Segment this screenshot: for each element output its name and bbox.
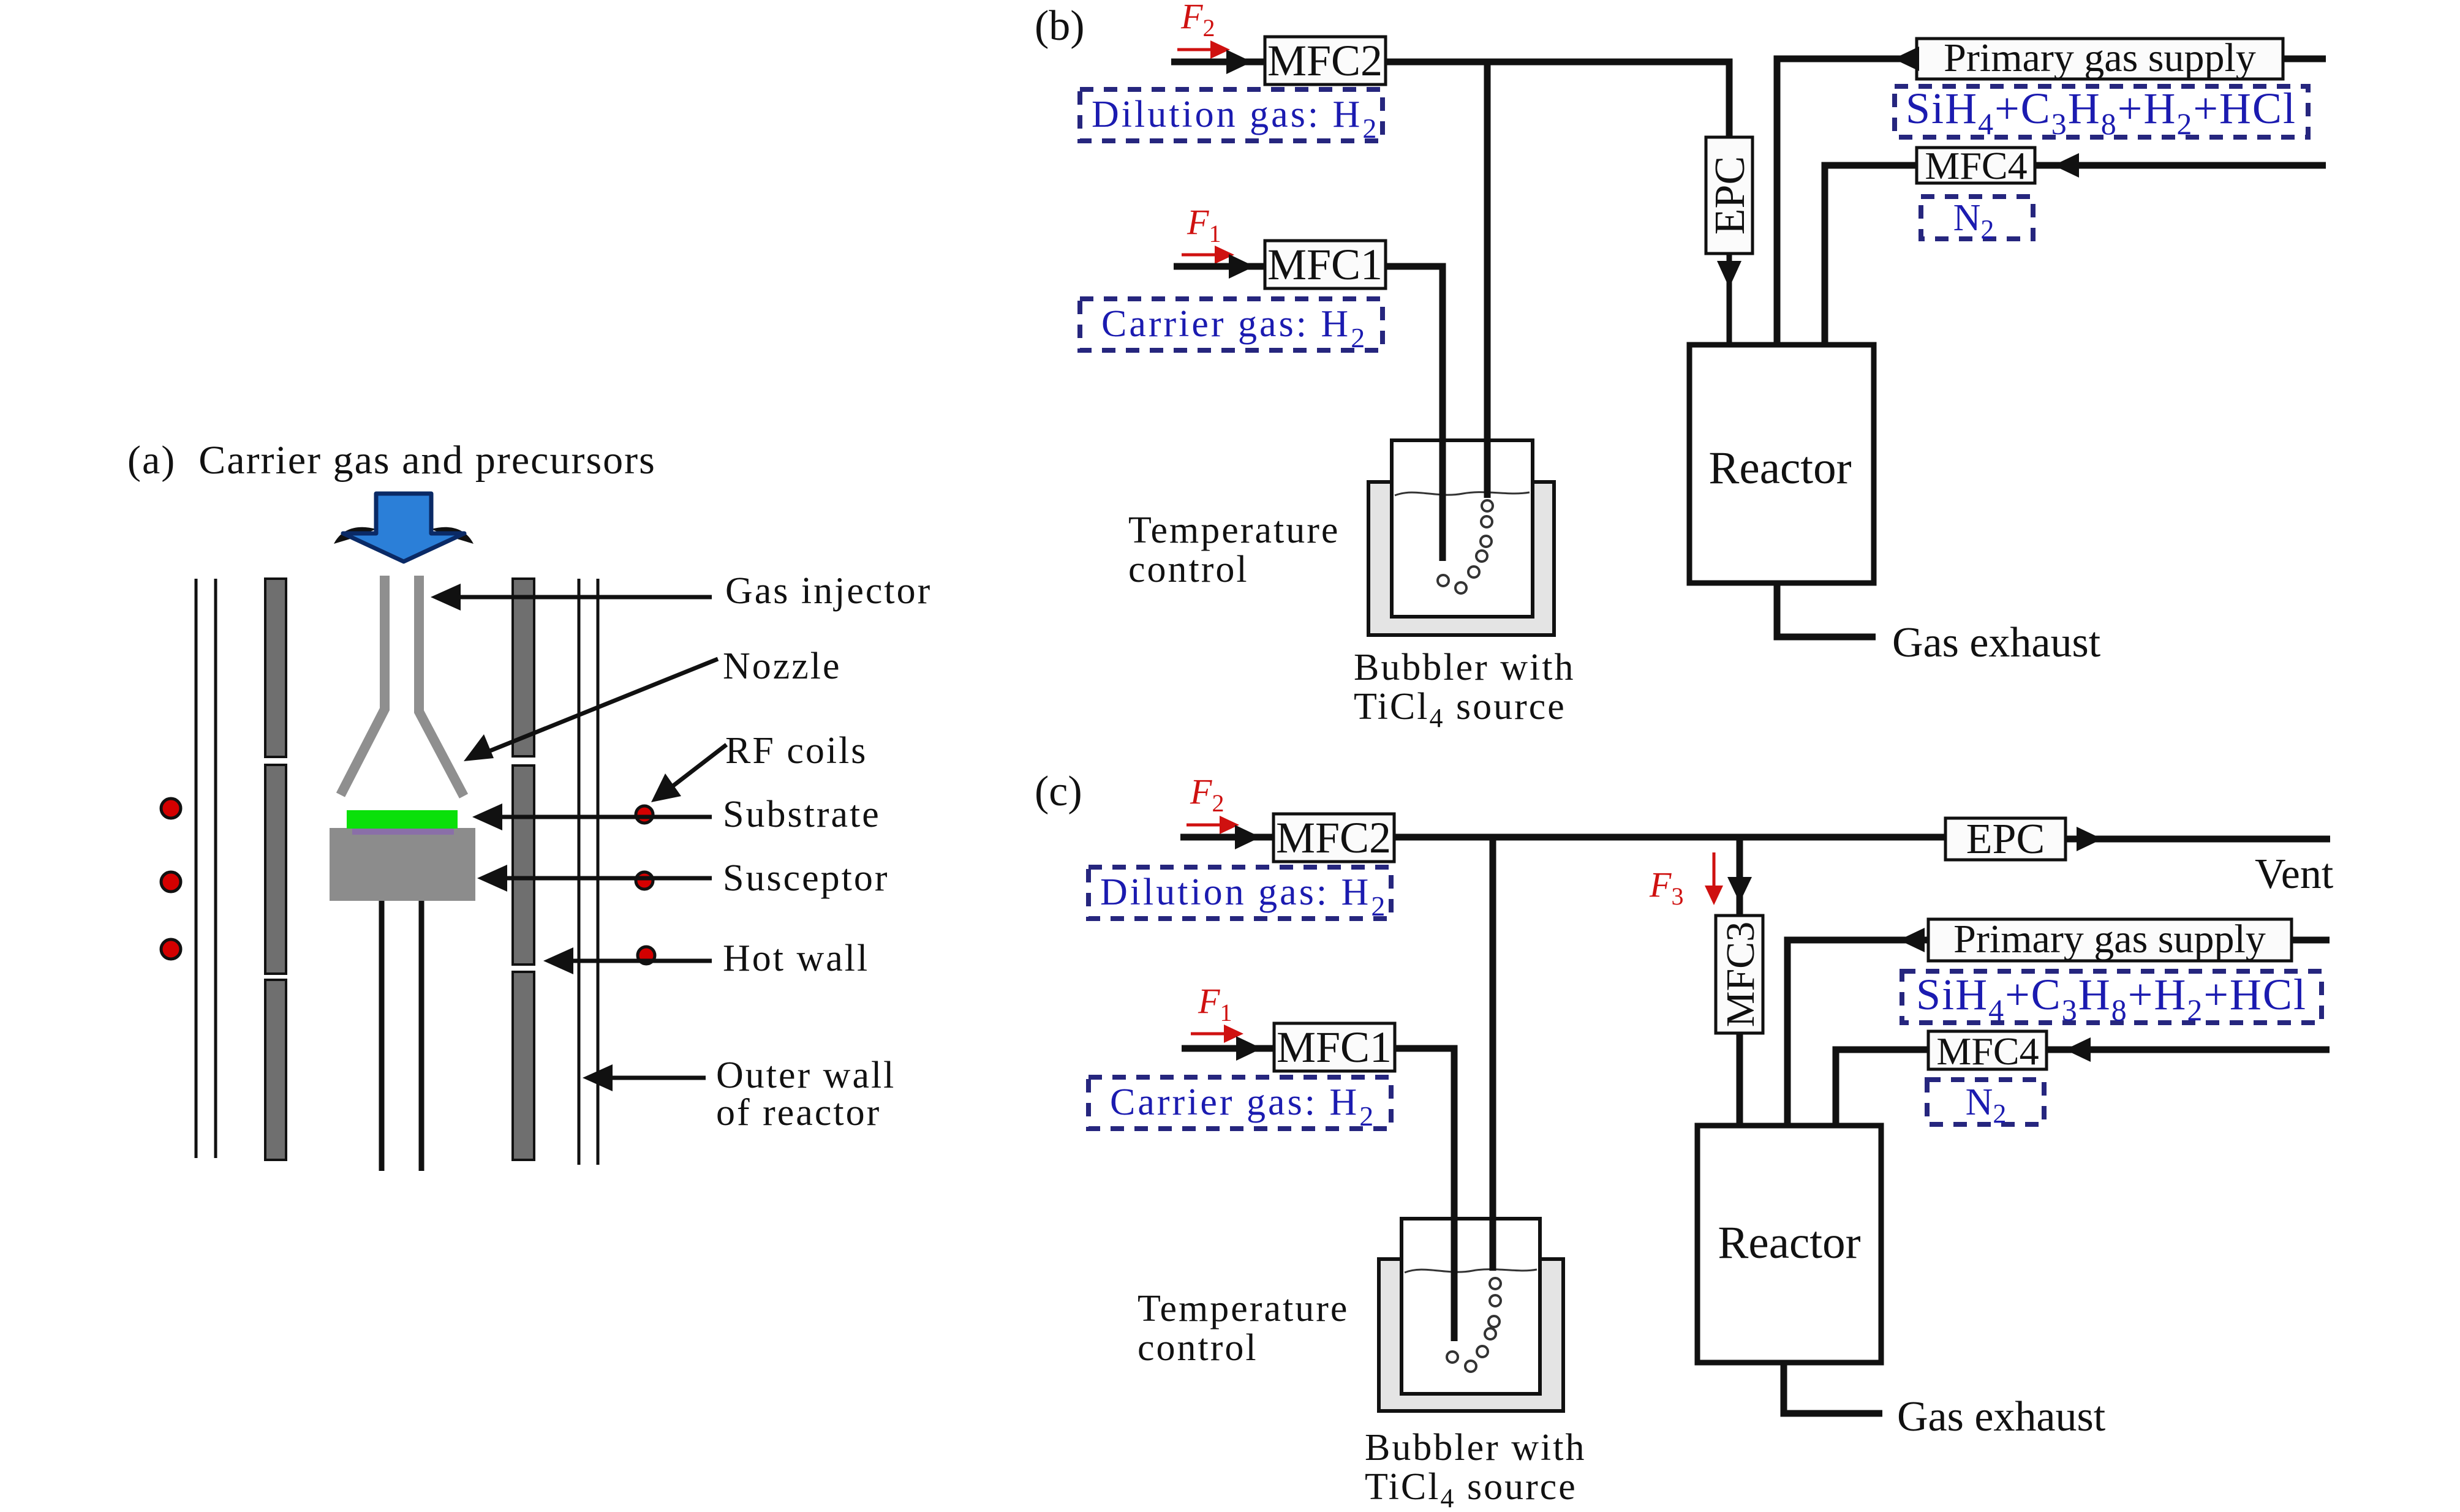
MFC1 box: [1265, 240, 1386, 289]
pipe branch down to MFC3 with arrowhead: [1737, 837, 1743, 916]
susceptor top strip (purple): [352, 828, 454, 835]
pipe from right edge into MFC4: [2035, 162, 2326, 169]
substrate pointer arrow: [472, 803, 712, 830]
svg-text:Vent: Vent: [2255, 851, 2334, 898]
liquid surface: [1395, 492, 1530, 495]
arrowhead into MFC4: [2065, 1037, 2091, 1062]
bubbler heating jacket (gray): [1379, 1259, 1563, 1411]
bubbles: [1438, 500, 1493, 593]
red flow arrow F2: [1177, 40, 1230, 59]
hot wall liner column (left) segment 1: [265, 579, 286, 757]
RF coils pointer arrow (diagonal): [651, 745, 726, 802]
svg-text:Gas exhaust: Gas exhaust: [1892, 619, 2101, 666]
svg-text:Susceptor: Susceptor: [723, 857, 889, 899]
pipe branch to bubbler tube 2: [1484, 62, 1491, 498]
EPC box (vertical): [1706, 137, 1754, 254]
pipe into MFC2: [1180, 834, 1273, 841]
svg-text:Temperature: Temperature: [1138, 1288, 1349, 1330]
Reactor box: [1689, 345, 1874, 583]
outer reactor wall line (right, inner): [578, 579, 581, 1165]
susceptor support leg left: [379, 901, 385, 1171]
MFC1 box: [1274, 1023, 1395, 1072]
svg-text:Substrate: Substrate: [723, 794, 881, 835]
gas exhaust pipe: [1777, 583, 1876, 637]
pipe EPC to reactor with arrowhead: [1727, 254, 1732, 345]
pipe Primary gas supply to reactor: [1777, 59, 1917, 345]
arrowhead into MFC2: [1235, 825, 1261, 849]
svg-text:EPC: EPC: [1707, 156, 1754, 235]
svg-text:EPC: EPC: [1966, 816, 2045, 863]
pipe from right edge into Primary gas supply: [2283, 56, 2326, 62]
svg-text:MFC2: MFC2: [1267, 36, 1383, 85]
svg-text:TiCl4 source: TiCl4 source: [1365, 1466, 1577, 1512]
bubbles: [1447, 1278, 1501, 1372]
svg-text:MFC4: MFC4: [1925, 144, 2027, 187]
gas injector pointer arrow: [431, 584, 712, 611]
dashed box: Carrier gas H2: [1089, 1077, 1391, 1132]
svg-text:(c): (c): [1035, 768, 1082, 815]
RF coil dot left 3: [161, 939, 181, 959]
red flow arrow F3 (down): [1705, 852, 1723, 905]
arrowhead into MFC4: [2053, 153, 2079, 178]
Primary gas supply box: [1928, 917, 2292, 961]
Reactor box: [1697, 1126, 1881, 1363]
dashed box: Dilution gas H2: [1080, 89, 1383, 144]
svg-text:Reactor: Reactor: [1718, 1217, 1860, 1268]
pipe MFC1 to bubbler tube 1: [1395, 1048, 1454, 1341]
svg-text:Gas exhaust: Gas exhaust: [1897, 1393, 2106, 1440]
svg-text:control: control: [1128, 549, 1249, 590]
pipe MFC4 to reactor: [1836, 1050, 1928, 1126]
svg-text:MFC3: MFC3: [1718, 922, 1763, 1027]
svg-text:Reactor: Reactor: [1708, 443, 1851, 494]
red flow arrow F1: [1182, 246, 1234, 264]
red flow arrow F2: [1187, 816, 1239, 834]
bubbler beaker: [1392, 440, 1533, 617]
hot wall liner column (right) segment 3: [513, 972, 534, 1160]
dashed box: Carrier gas H2: [1080, 299, 1383, 353]
pipe EPC to vent with arrowhead: [2066, 836, 2330, 843]
pipe into MFC1: [1182, 1045, 1274, 1052]
pipe from right edge into Primary gas supply: [2292, 937, 2330, 944]
arrowhead into MFC1: [1229, 254, 1255, 279]
RF coil dot left 1: [161, 799, 181, 818]
dashed box: N2: [1927, 1080, 2044, 1129]
hot wall pointer arrow: [543, 947, 712, 974]
svg-text:Hot wall: Hot wall: [723, 938, 869, 979]
inner quartz wall line (left, inner): [195, 579, 198, 1158]
pipe branch to bubbler tube 2: [1490, 837, 1496, 1271]
pipe into MFC1: [1174, 263, 1265, 270]
hot wall liner column (right) segment 2: [513, 765, 534, 965]
susceptor pointer arrow: [477, 865, 712, 892]
RF coil dot right 3 (on hot wall arrow): [638, 947, 655, 964]
svg-text:(a) Carrier gas and precursor: (a) Carrier gas and precursors: [127, 438, 656, 483]
outer wall pointer arrow: [583, 1064, 706, 1091]
pipe MFC4 to reactor: [1825, 165, 1917, 345]
bubbler tube 1 (dip tube): [1451, 1219, 1458, 1341]
inner quartz wall line (left, outer): [214, 579, 217, 1158]
hot wall liner column (left) segment 3: [265, 980, 286, 1160]
blue inlet arrow (carrier gas and precursors): [334, 494, 474, 562]
susceptor support leg right: [419, 901, 424, 1171]
svg-text:Gas injector: Gas injector: [725, 570, 932, 612]
svg-text:control: control: [1138, 1327, 1258, 1369]
dashed box: SiH4+C3H8+H2+HCl: [1895, 84, 2308, 141]
svg-text:Outer wall: Outer wall: [716, 1055, 896, 1096]
svg-text:MFC1: MFC1: [1277, 1023, 1392, 1072]
pipe MFC1 to bubbler tube 1: [1386, 266, 1443, 561]
susceptor block: [330, 828, 475, 901]
main pipe MFC2 to EPC: [1394, 834, 1945, 841]
svg-text:RF coils: RF coils: [725, 730, 867, 772]
arrowhead out of Primary gas supply (left): [1893, 47, 1919, 71]
pipe MFC2 to EPC corner: [1386, 62, 1729, 137]
nozzle pointer arrow (diagonal): [464, 659, 718, 761]
gas exhaust pipe: [1784, 1363, 1882, 1413]
RF coil dot right 1 (on substrate arrow): [636, 806, 653, 823]
hot wall liner column (right) segment 1: [513, 579, 534, 756]
bubbler heating jacket (gray): [1368, 482, 1554, 635]
svg-text:Bubbler with: Bubbler with: [1354, 647, 1575, 688]
hot wall liner column (left) segment 2: [265, 765, 286, 974]
MFC4 box: [1928, 1029, 2047, 1073]
arrowhead into MFC2: [1226, 50, 1252, 74]
RF coil dot right 2 (on susceptor arrow): [636, 872, 653, 889]
svg-text:of reactor: of reactor: [716, 1092, 881, 1134]
liquid surface: [1405, 1269, 1537, 1273]
gas injector tube + nozzle flare right wall: [419, 576, 464, 796]
arrowhead into MFC1: [1236, 1036, 1262, 1061]
bubbler tube 2 (outlet tube): [1484, 440, 1491, 498]
MFC2 box: [1265, 36, 1386, 85]
svg-text:Bubbler with: Bubbler with: [1365, 1427, 1586, 1469]
svg-text:MFC2: MFC2: [1276, 813, 1391, 862]
substrate (green): [347, 810, 458, 829]
gas injector tube + nozzle flare left wall: [341, 576, 385, 795]
svg-text:(b): (b): [1035, 2, 1085, 50]
dashed box: N2: [1921, 197, 2033, 244]
bubbler tube 1 (dip tube): [1439, 440, 1446, 561]
pipe MFC3 to reactor: [1737, 1033, 1743, 1126]
svg-text:Primary gas supply: Primary gas supply: [1953, 917, 2266, 961]
svg-text:MFC1: MFC1: [1267, 240, 1383, 289]
bubbler tube 2 (outlet tube): [1490, 1219, 1496, 1271]
svg-text:Temperature: Temperature: [1128, 510, 1340, 551]
svg-text:Primary gas supply: Primary gas supply: [1944, 36, 2256, 80]
red flow arrow F1: [1191, 1025, 1243, 1043]
pipe from right edge into MFC4: [2047, 1047, 2330, 1053]
MFC2 box: [1273, 813, 1394, 862]
EPC box (horizontal): [1945, 816, 2066, 863]
dashed box: SiH4+C3H8+H2+HCl: [1902, 970, 2322, 1027]
bubbler beaker: [1402, 1219, 1540, 1394]
pipe Primary gas supply to reactor: [1787, 940, 1928, 1126]
outer reactor wall line (right, outer): [597, 579, 600, 1165]
MFC4 box: [1917, 144, 2035, 187]
arrowhead out of Primary gas supply (left): [1899, 928, 1925, 952]
dashed box: Dilution gas H2: [1089, 867, 1391, 922]
MFC3 box (vertical): [1716, 916, 1763, 1033]
svg-text:MFC4: MFC4: [1936, 1029, 2039, 1073]
pipe into MFC2: [1171, 59, 1265, 66]
RF coil dot left 2: [161, 872, 181, 892]
Primary gas supply box: [1917, 36, 2283, 80]
svg-text:Nozzle: Nozzle: [723, 645, 842, 687]
svg-text:TiCl4 source: TiCl4 source: [1354, 686, 1566, 733]
